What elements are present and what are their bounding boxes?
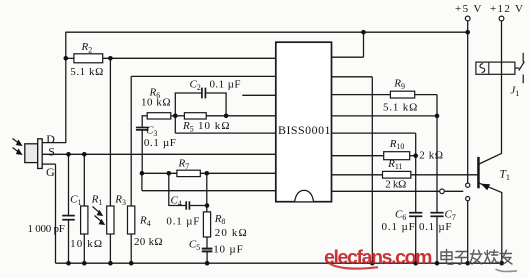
svg-text:0.1 µF: 0.1 µF <box>382 221 415 233</box>
resistor R2 <box>74 54 103 63</box>
wire R9 riser lower below C7 <box>436 216 438 263</box>
watermark red swoosh <box>327 262 378 269</box>
relay J1 fixed contact lower <box>522 75 524 84</box>
capacitor C3 <box>136 127 149 129</box>
op-amp U1 BISS0001 body <box>276 42 332 202</box>
wire C4 left lead <box>169 205 186 207</box>
watermark char 烧 <box>485 250 499 264</box>
wire R9 riser upper <box>436 95 438 213</box>
relay J1 coil divider <box>488 62 490 74</box>
svg-text:elecfans.com: elecfans.com <box>324 247 433 269</box>
wire R7 row to chip pin 7L <box>200 172 276 174</box>
capacitor C5 <box>202 248 213 250</box>
relay J1 contact arm <box>519 62 525 71</box>
svg-text:10 µF: 10 µF <box>213 244 243 256</box>
wire C5 bottom lead <box>206 251 208 263</box>
junction rail-C5 <box>205 261 210 266</box>
transistor T1 base bar <box>477 157 480 188</box>
junction rail-switch <box>465 261 470 266</box>
wire C4 left riser <box>168 173 170 206</box>
capacitor C6 <box>409 212 422 214</box>
resistor R3 <box>107 206 114 234</box>
wire node riser to pin8L row <box>141 173 143 190</box>
svg-text:0.1 µF: 0.1 µF <box>419 221 452 233</box>
wire C1 top lead <box>68 154 70 215</box>
switch movable terminal <box>440 189 445 194</box>
junction R7-C4 <box>167 171 172 176</box>
wire pin1R riser to top rail <box>363 32 365 57</box>
wire ground bottom rail <box>56 262 502 264</box>
wire G riser to ground rail <box>55 164 57 263</box>
junction rail-C1 <box>66 261 71 266</box>
wire S line to chip pin 6L <box>42 153 276 155</box>
svg-text:5.1 kΩ: 5.1 kΩ <box>70 66 103 78</box>
wire C3 bottom lead <box>141 130 143 174</box>
junction rail-C6 <box>413 261 418 266</box>
wire R6 left corner <box>141 115 143 127</box>
junction +5V rail <box>465 30 470 35</box>
wire C1 bottom lead <box>68 220 70 263</box>
junction R9-pin4R <box>435 114 440 119</box>
watermark char 友 <box>499 250 512 264</box>
U1 bottom index notch <box>295 190 314 201</box>
wire pin5R riser lower below C6 <box>415 216 417 263</box>
terminal +5V <box>465 16 470 21</box>
wire C2 right riser <box>225 93 227 116</box>
wire pin2R ground riser <box>371 77 373 263</box>
wire switch lower contact to rail <box>467 201 469 264</box>
resistor R5 <box>184 113 206 119</box>
wire C2 top right <box>205 92 227 94</box>
junction rail-C7 <box>435 261 440 266</box>
svg-text:20 kΩ: 20 kΩ <box>215 227 247 239</box>
resistor R8 <box>203 212 210 237</box>
svg-text:G: G <box>46 165 55 179</box>
junction C4-R8 <box>205 203 210 208</box>
terminal +12V <box>499 16 504 21</box>
wire R3 bottom lead <box>109 234 111 263</box>
wire C2 top left <box>175 92 202 94</box>
resistor R6 <box>147 113 171 119</box>
wire R4 bottom lead <box>130 234 132 263</box>
svg-text:+12 V: +12 V <box>490 3 523 15</box>
relay J1 coil sine <box>480 64 485 73</box>
wire D pin stub <box>42 142 66 144</box>
wire R7 row left <box>142 172 177 174</box>
watermark gray swoosh <box>496 269 518 271</box>
wire chip pin 8L row <box>142 190 277 192</box>
wire G pin stub <box>42 163 55 165</box>
wire chip pin 2R row <box>331 76 372 78</box>
wire chip pin 3R to R9 <box>331 94 390 96</box>
capacitor C7 <box>430 212 443 214</box>
wire R2 row to chip pin 1L <box>103 57 277 59</box>
photoresistor arrows on R3 <box>93 207 100 213</box>
junction C3-R7 <box>140 171 145 176</box>
wire R11 to T1 base <box>411 174 478 176</box>
wire chip pin 2L row <box>131 75 276 77</box>
svg-text:2 kΩ: 2 kΩ <box>419 149 443 161</box>
svg-text:2 kΩ: 2 kΩ <box>385 178 406 190</box>
wire R2-right riser to R3 <box>109 58 111 206</box>
PIR sensor body <box>25 144 38 163</box>
junction R6-R5-C2 <box>173 114 178 119</box>
transistor T1 emitter arrow <box>481 184 491 191</box>
switch contact lower <box>466 197 470 201</box>
svg-text:10 kΩ: 10 kΩ <box>198 120 230 132</box>
wire C4 right lead <box>189 205 207 207</box>
svg-text:S: S <box>48 144 55 158</box>
wire R10 right lead <box>410 155 416 157</box>
resistor R4 <box>128 206 135 234</box>
wire chip pin 8R row <box>331 190 440 192</box>
wire pin2L riser to R4 <box>130 76 132 206</box>
watermark char 发 <box>470 250 483 264</box>
wire R2 row left <box>66 57 74 59</box>
junction rail-D <box>64 56 69 61</box>
capacitor C2 <box>201 88 203 99</box>
wire chip pin 4R row <box>331 115 437 117</box>
switch contact upper <box>466 183 470 187</box>
svg-text:5.1 kΩ: 5.1 kΩ <box>383 101 417 113</box>
resistor R1 <box>81 206 88 234</box>
junction S-C1 <box>66 152 71 157</box>
resistor R7 <box>177 170 200 176</box>
resistor R10 <box>384 152 410 160</box>
wire R6-R5 link <box>171 115 185 117</box>
wire R5 to chip pin 4L <box>206 115 276 117</box>
wire chip pin 6R to R10 <box>331 155 384 157</box>
PIR sensor arrow 1 <box>13 139 20 144</box>
svg-text:1 000 pF: 1 000 pF <box>28 223 65 235</box>
wire +5V top rail <box>66 31 469 33</box>
svg-text:0.1 µF: 0.1 µF <box>144 137 176 149</box>
wire R8 to C5 <box>206 237 208 249</box>
wire C2 left riser <box>174 93 176 133</box>
junction S-R1 <box>82 152 87 157</box>
transistor T1 emitter <box>479 183 502 193</box>
watermark char 电 <box>441 250 453 265</box>
capacitor C4 <box>185 201 187 209</box>
PIR sensor window bar <box>38 139 43 169</box>
junction rail-R3 <box>108 261 113 266</box>
wire +5V feeder <box>467 21 469 183</box>
transistor T1 collector <box>479 153 502 164</box>
watermark char 子 <box>455 252 468 265</box>
wire D riser to rail <box>65 32 67 143</box>
svg-text:10 kΩ: 10 kΩ <box>70 238 102 250</box>
svg-text:20 kΩ: 20 kΩ <box>134 236 163 248</box>
svg-text:0.1 µF: 0.1 µF <box>210 78 241 90</box>
wire R1 bottom lead <box>83 234 85 263</box>
junction R2-R3 <box>108 56 113 61</box>
junction rail-emitter <box>500 261 505 266</box>
junction rail-R4 <box>129 261 134 266</box>
wire chip pin 7R to R11 <box>331 174 383 176</box>
junction rail-gnd pin <box>370 261 375 266</box>
junction R10-pin5R <box>413 153 418 158</box>
wire chip pin 5R row <box>331 132 416 134</box>
wire pin5R riser upper <box>415 133 417 213</box>
wire chip pin 3L stub <box>242 94 276 96</box>
capacitor C1 <box>62 215 75 217</box>
junction R5-C2-pin4L <box>224 114 229 119</box>
wire +12V feeder <box>501 21 503 154</box>
PIR sensor arrow 2 <box>13 148 20 153</box>
junction R7-R8 <box>205 171 210 176</box>
wire R6 row <box>142 115 148 117</box>
relay J1 fixed contact upper <box>522 53 524 63</box>
relay J1 contact stub <box>515 67 520 69</box>
wire R1 top lead <box>83 154 85 206</box>
wire chip pin 1R to VDD <box>331 56 364 58</box>
wire R7-R8 riser <box>206 173 208 212</box>
wire switch arm <box>444 190 463 192</box>
wire T1 emitter drop <box>501 192 503 263</box>
svg-text:BISS0001: BISS0001 <box>278 123 331 137</box>
resistor R11 <box>383 171 411 178</box>
relay J1 coil box <box>476 62 515 74</box>
junction rail-R1 <box>82 261 87 266</box>
svg-text:10 kΩ: 10 kΩ <box>141 97 171 109</box>
junction VDD rail <box>361 30 366 35</box>
wire chip pin 5L row <box>175 132 276 134</box>
wire R9 right lead <box>415 94 437 96</box>
resistor R9 <box>390 91 414 98</box>
svg-text:0.1 µF: 0.1 µF <box>166 215 199 227</box>
